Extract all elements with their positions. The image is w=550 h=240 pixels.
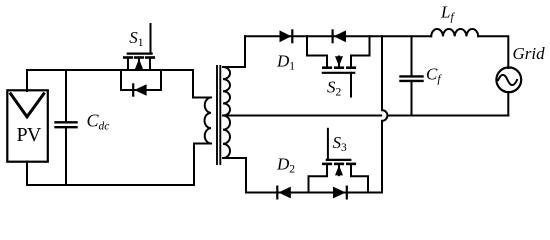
body diode of S2	[333, 30, 346, 42]
junction vertical wire with hop over center tap	[381, 36, 383, 110]
wire L_f to grid	[478, 36, 508, 68]
transformer secondary winding upper half	[223, 67, 230, 116]
transformer secondary winding lower half	[223, 115, 230, 158]
PV source	[7, 90, 48, 161]
diode D1	[280, 30, 293, 42]
svg-text:S2: S2	[327, 78, 342, 99]
mosfet S2	[307, 36, 370, 96]
body diode of S3	[333, 187, 347, 199]
wire secondary bottom stub	[223, 158, 246, 193]
wire center tap rail	[223, 115, 381, 117]
mosfet S1	[124, 24, 154, 70]
transformer T1 primary winding	[205, 98, 211, 144]
wire bottom-left rail	[27, 184, 194, 186]
wire primary bottom stub	[194, 144, 211, 186]
svg-text:D2: D2	[276, 155, 295, 176]
transformer core	[216, 66, 218, 164]
capacitor C_dc	[56, 70, 77, 185]
inductor L_f	[431, 29, 478, 36]
svg-text:PV: PV	[17, 124, 42, 146]
svg-text:Lf: Lf	[440, 3, 455, 24]
svg-text:Cf: Cf	[426, 65, 442, 86]
body diode of S1	[121, 70, 161, 96]
wire grid bottom lead	[507, 92, 509, 116]
AC source Grid	[496, 67, 521, 92]
wire secondary top stub	[223, 36, 245, 67]
wire S1 to transformer primary	[193, 70, 211, 98]
wire PV top lead	[26, 70, 28, 91]
wire PV bottom lead	[26, 162, 28, 186]
svg-text:Grid: Grid	[513, 44, 546, 63]
wire bottom branch line	[246, 192, 382, 194]
wire top-left rail	[27, 69, 193, 71]
wire top output line	[245, 35, 431, 37]
mosfet S3	[309, 129, 369, 193]
capacitor C_f	[401, 36, 423, 115]
svg-text:S3: S3	[333, 133, 348, 154]
svg-text:Cdc: Cdc	[87, 111, 110, 133]
diode D2	[277, 187, 291, 199]
svg-text:D1: D1	[276, 52, 295, 73]
svg-text:S1: S1	[129, 28, 144, 49]
